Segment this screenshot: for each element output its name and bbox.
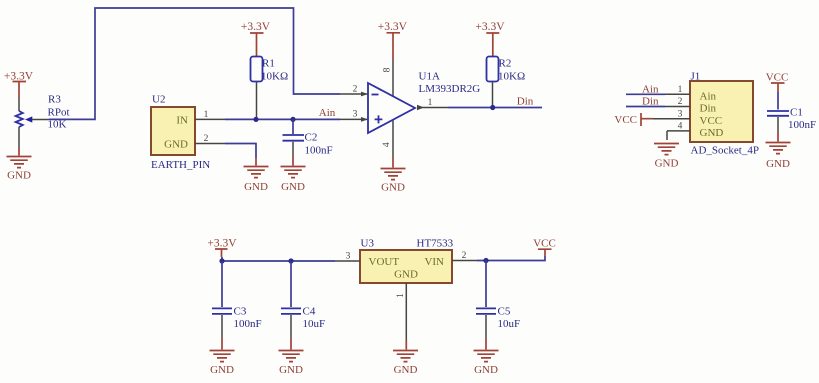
svg-text:RPot: RPot: [48, 107, 70, 119]
svg-text:VCC: VCC: [766, 72, 789, 84]
svg-text:100nF: 100nF: [234, 318, 262, 330]
wire pot bottom: [18, 127, 20, 148]
component U2: [151, 94, 210, 172]
C3 value labels: [234, 306, 262, 331]
power +3.3V (bottom rail): [207, 237, 237, 257]
connector J1: [690, 71, 759, 157]
svg-text:100nF: 100nF: [305, 145, 333, 157]
ground (pot R3): [7, 157, 32, 182]
power +3.3V (U1A pin 8): [378, 21, 408, 60]
svg-text:2: 2: [678, 97, 683, 107]
wire Din to J1: [626, 106, 665, 108]
svg-text:J1: J1: [691, 71, 701, 83]
C2 value labels: [305, 132, 333, 157]
wire Ain to J1: [626, 93, 665, 95]
wire J1 pin 4 to ground: [666, 131, 668, 140]
wire U1A output / Din: [448, 107, 542, 109]
U3 pin 1 GND: [396, 283, 406, 350]
svg-text:10uF: 10uF: [303, 318, 326, 330]
wire pot top: [18, 98, 20, 111]
svg-text:Ain: Ain: [642, 84, 659, 96]
svg-text:U2: U2: [152, 94, 165, 106]
svg-text:+3.3V: +3.3V: [207, 237, 237, 249]
op-amp U1A: [368, 83, 415, 133]
U3 pin 2: [452, 251, 477, 261]
wire U2 pin2 to ground: [225, 144, 256, 159]
capacitor C5: [476, 261, 496, 350]
svg-text:GND: GND: [7, 170, 31, 182]
ground (U3): [393, 351, 418, 377]
J1 pin 4: [667, 122, 690, 132]
svg-text:Din: Din: [700, 103, 717, 115]
svg-text:VCC: VCC: [614, 114, 637, 126]
svg-text:4: 4: [382, 142, 392, 147]
junction node (C3 / rail): [219, 258, 224, 263]
capacitor C2: [283, 119, 305, 165]
svg-text:VIN: VIN: [424, 256, 444, 268]
svg-text:R2: R2: [499, 57, 512, 69]
svg-text:VCC: VCC: [533, 238, 556, 250]
svg-text:GND: GND: [281, 181, 305, 193]
svg-text:+3.3V: +3.3V: [4, 70, 34, 82]
svg-text:2: 2: [353, 85, 358, 95]
junction node (C4 / rail): [288, 258, 293, 263]
U1A labels: [419, 71, 481, 96]
C5 value labels: [498, 306, 521, 331]
U3 pin 3: [335, 252, 360, 262]
svg-text:GND: GND: [474, 364, 498, 376]
ground (C4): [279, 351, 304, 377]
ground (J1 pin 4): [654, 144, 679, 170]
svg-text:1: 1: [396, 293, 406, 298]
svg-text:LM393DR2G: LM393DR2G: [419, 83, 481, 95]
svg-text:R1: R1: [262, 57, 275, 69]
ground (C3): [210, 351, 235, 377]
svg-text:GND: GND: [244, 181, 268, 193]
regulator U3: [360, 238, 454, 284]
svg-text:U3: U3: [361, 238, 375, 250]
U1A pin 8: [383, 60, 393, 97]
svg-text:AD_Socket_4P: AD_Socket_4P: [691, 145, 759, 157]
svg-text:C1: C1: [790, 107, 803, 119]
junction node (C2 / Ain): [290, 117, 295, 122]
ground (U2 pin2): [244, 167, 269, 194]
wire wiper loop to op-amp pin 2: [49, 8, 340, 119]
svg-text:GND: GND: [700, 127, 724, 139]
C1 value labels: [788, 107, 816, 132]
svg-text:GND: GND: [164, 139, 188, 151]
svg-text:VOUT: VOUT: [369, 256, 400, 268]
power VCC (J1 pin 3): [614, 113, 653, 126]
U1A pin 4: [382, 120, 393, 167]
ground (C5): [474, 351, 499, 377]
power +3.3V (pot R3): [4, 70, 34, 98]
svg-text:3: 3: [353, 110, 358, 120]
svg-text:+3.3V: +3.3V: [241, 21, 271, 33]
svg-text:10KΩ: 10KΩ: [261, 70, 288, 82]
capacitor C1: [767, 92, 789, 142]
J1 pin 1: [665, 85, 690, 95]
svg-text:IN: IN: [176, 114, 188, 126]
svg-text:GND: GND: [279, 364, 303, 376]
junction node (R2 / Din): [490, 105, 495, 110]
svg-text:Ain: Ain: [700, 91, 717, 103]
ground (C2): [281, 167, 306, 194]
svg-text:C5: C5: [498, 306, 511, 318]
svg-text:+3.3V: +3.3V: [475, 21, 505, 33]
capacitor C3: [212, 261, 232, 350]
svg-text:3: 3: [678, 109, 683, 119]
svg-text:4: 4: [678, 122, 683, 132]
svg-text:C4: C4: [303, 306, 316, 318]
J1 pin 2: [665, 97, 690, 107]
J1 pin 3: [653, 109, 690, 119]
power +3.3V (R1): [241, 21, 271, 56]
svg-text:2: 2: [204, 134, 209, 144]
wire U2 pin1 to Ain net: [225, 118, 340, 120]
svg-text:10uF: 10uF: [498, 318, 521, 330]
potentiometer R3: [16, 111, 49, 127]
svg-text:C2: C2: [305, 132, 318, 144]
wire U3 VIN to VCC: [477, 256, 545, 261]
resistor R1: [251, 57, 263, 120]
R3 labels: [48, 93, 70, 130]
svg-text:100nF: 100nF: [788, 119, 816, 131]
svg-text:8: 8: [383, 67, 393, 72]
R2 value labels: [498, 57, 525, 82]
U1A pin 3: [340, 110, 368, 122]
power +3.3V (R2): [475, 21, 505, 56]
svg-text:GND: GND: [381, 182, 405, 194]
svg-text:R3: R3: [48, 93, 61, 105]
power VCC (C1): [766, 72, 789, 93]
U2 pin 1: [195, 110, 225, 120]
svg-text:GND: GND: [210, 364, 234, 376]
svg-text:Ain: Ain: [319, 107, 336, 119]
U2 pin 2: [195, 134, 225, 144]
junction node (R1 / Ain): [253, 117, 258, 122]
svg-text:Din: Din: [642, 96, 659, 108]
U1A pin 2: [340, 85, 368, 97]
C4 value labels: [303, 306, 326, 331]
ground (C1): [766, 143, 791, 171]
svg-text:C3: C3: [234, 306, 247, 318]
power VCC (U3 VIN): [533, 238, 556, 256]
svg-text:VCC: VCC: [700, 115, 723, 127]
capacitor C4: [281, 261, 301, 350]
svg-text:1: 1: [678, 85, 683, 95]
junction node (C5 / VIN): [483, 258, 488, 263]
svg-text:3: 3: [346, 252, 351, 262]
svg-text:1: 1: [428, 98, 433, 108]
svg-text:10K: 10K: [48, 119, 67, 131]
svg-text:EARTH_PIN: EARTH_PIN: [151, 159, 210, 171]
resistor R2: [487, 57, 499, 108]
svg-text:U1A: U1A: [419, 71, 440, 83]
svg-text:Din: Din: [517, 96, 534, 108]
svg-text:GND: GND: [655, 158, 679, 170]
svg-text:1: 1: [204, 110, 209, 120]
U1A pin 1 output: [417, 98, 448, 110]
svg-text:2: 2: [462, 251, 467, 261]
svg-text:GND: GND: [394, 364, 418, 376]
ground (U1A pin 4): [381, 169, 406, 194]
svg-text:10KΩ: 10KΩ: [498, 70, 525, 82]
svg-text:HT7533: HT7533: [417, 238, 454, 250]
svg-text:GND: GND: [394, 269, 418, 281]
wire +3.3V rail to U3 VOUT: [222, 257, 335, 261]
svg-text:GND: GND: [766, 158, 790, 170]
svg-text:+3.3V: +3.3V: [378, 21, 408, 33]
R1 value labels: [261, 57, 288, 82]
